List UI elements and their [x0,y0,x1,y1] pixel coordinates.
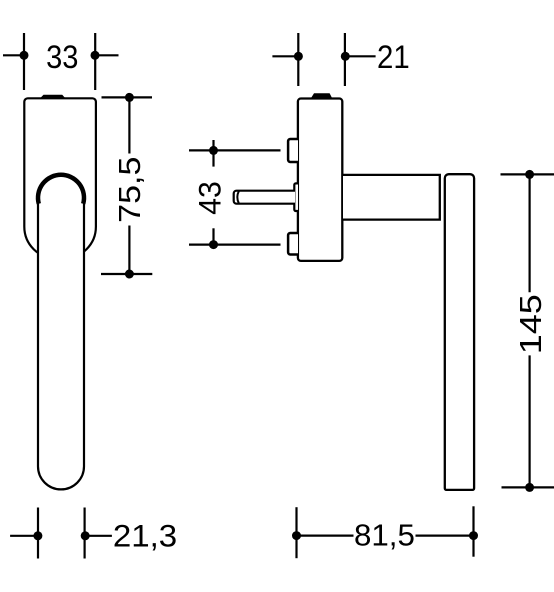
dim line 43 [212,140,214,167]
svg-text:81,5: 81,5 [354,518,415,553]
ext lines 75,5 [102,96,153,98]
label 81,5 [354,518,415,553]
spindle [234,191,295,204]
spindle tip chamfer [237,191,239,203]
label 21,3 [113,518,177,553]
grip neck thick arc [38,175,84,204]
handle bar (side) [445,174,474,490]
handle neck (side) [343,175,440,220]
label 145 [514,294,548,354]
dim line 21 [272,55,298,57]
svg-text:33: 33 [46,39,78,76]
svg-text:145: 145 [514,294,548,354]
ext lines 21,3 [37,508,39,559]
dots 21 [294,52,303,61]
label 75,5 [112,157,146,223]
ext lines 33 [23,33,25,90]
svg-text:21: 21 [377,39,410,76]
dots 145 [525,170,534,179]
rosette top tab [41,95,65,98]
rosette side top tab [312,94,331,98]
dots 33 [20,51,29,60]
handle grip (front) [38,178,84,489]
svg-text:43: 43 [192,181,228,215]
screw boss top [288,139,298,162]
dim line 145 [528,174,530,292]
dots 43 [209,146,218,155]
dots 75,5 [125,93,134,102]
rosette side [298,99,342,261]
svg-text:75,5: 75,5 [112,157,146,223]
ext lines 21 [297,33,299,86]
dots 21,3 [33,531,42,540]
label 43 [192,181,228,215]
dim line 21,3 [10,535,38,537]
screw boss bottom [288,233,298,255]
dots 81,5 [292,531,301,540]
dim line 81,5 [297,534,354,536]
svg-text:21,3: 21,3 [113,518,177,553]
dim line 33 [3,54,28,56]
spindle flange [294,183,298,211]
ext lines 145 [501,173,554,175]
label 33 [46,39,78,76]
ext lines 43 [189,149,281,151]
dim line 75,5 [128,97,130,153]
rosette front [24,98,96,258]
ext lines 81,5 [295,507,297,558]
label 21 [377,39,410,76]
